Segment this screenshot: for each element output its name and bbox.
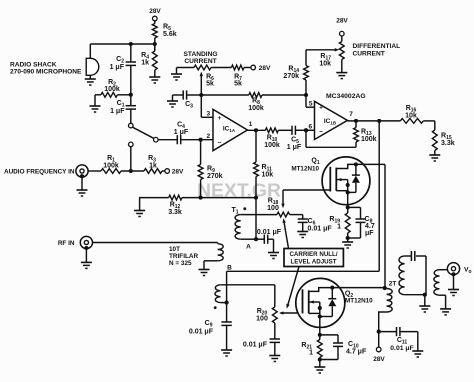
connector RF IN [58, 236, 93, 262]
svg-text:DIFFERENTIAL: DIFFERENTIAL [353, 43, 401, 50]
svg-text:5: 5 [309, 101, 313, 108]
svg-text:1 μF: 1 μF [110, 108, 125, 115]
svg-text:1: 1 [337, 224, 341, 231]
node (Q2 source) [318, 327, 322, 337]
node B label [227, 265, 232, 272]
capacitor C4 1uF [158, 122, 213, 145]
wire (IC1A output) [247, 128, 265, 132]
svg-text:LEVEL ADJUST: LEVEL ADJUST [290, 259, 336, 266]
capacitor C8 4.7uF [348, 207, 375, 238]
microphone (Radio Shack 270-090) [86, 44, 99, 79]
svg-text:2T: 2T [389, 281, 397, 288]
ground [342, 242, 353, 248]
ground [314, 367, 325, 373]
transistor Q1 MT12N10 [291, 157, 370, 207]
svg-text:28V: 28V [336, 18, 348, 25]
capacitor C1 1uF [110, 95, 136, 123]
svg-text:100: 100 [256, 316, 268, 323]
wire (pin6) [296, 128, 315, 132]
capacitor C5 1uF [287, 126, 315, 151]
svg-text:270k: 270k [283, 73, 299, 80]
svg-text:100k: 100k [248, 105, 264, 112]
node (C3/wiper/pin3) [199, 93, 203, 97]
transformer T2 output link [434, 270, 447, 309]
svg-text:10k: 10k [262, 172, 274, 179]
op-amp IC1B MC34002AG [308, 93, 365, 140]
svg-text:MT12N10: MT12N10 [291, 166, 319, 173]
capacitor (tank) [411, 251, 414, 261]
svg-text:0.01 μF: 0.01 μF [257, 229, 282, 236]
ground [336, 73, 347, 79]
resistor R7 5k [211, 65, 251, 87]
potentiometer R17 10k (differential current) [306, 36, 344, 73]
svg-text:3: 3 [206, 111, 210, 118]
resistor R12 3.3k (bias return) [139, 195, 200, 216]
potentiometer R20 100 (carrier null) [256, 285, 302, 323]
svg-text:28V: 28V [259, 65, 271, 72]
power terminal 28V (audio bias) [165, 169, 184, 176]
resistor R15 3.3k [432, 121, 454, 155]
wire (Q2 drain to 2T) [332, 287, 384, 289]
svg-text:100: 100 [267, 205, 279, 212]
label RADIO SHACK 270-090 MICROPHONE [10, 62, 82, 76]
ground [134, 211, 145, 217]
svg-text:CARRIER NULL/: CARRIER NULL/ [289, 251, 337, 258]
svg-text:10k: 10k [405, 113, 417, 120]
label 10T TRIFILAR N=325 [169, 246, 198, 267]
svg-text:1k: 1k [141, 60, 149, 67]
svg-text:3.3k: 3.3k [168, 209, 182, 216]
connector Vo output [447, 263, 471, 290]
resistor R5 5.6k [152, 24, 176, 39]
transformer T2 secondary (tank) [399, 256, 427, 306]
ground [85, 79, 96, 85]
resistor R8 100k [201, 93, 306, 112]
transformer T1 winding C [214, 285, 275, 309]
svg-text:0.01 μF: 0.01 μF [243, 342, 268, 349]
ground [81, 262, 92, 268]
svg-text:28V: 28V [149, 8, 161, 15]
potentiometer R6 5k [194, 65, 214, 95]
resistor R13 100k (feedback) [306, 121, 377, 147]
capacitor C3 [173, 90, 202, 109]
adjust arrow to R18 [283, 218, 289, 248]
svg-text:1k: 1k [149, 163, 157, 170]
adjust arrow to R20 [286, 267, 299, 309]
wire (bias line) [201, 197, 256, 199]
ground [167, 101, 178, 107]
label DIFFERENTIAL CURRENT [353, 43, 401, 58]
svg-text:0.01 μF: 0.01 μF [189, 329, 214, 336]
ground [429, 155, 440, 161]
ground [149, 77, 160, 83]
svg-text:100k: 100k [104, 86, 120, 93]
svg-text:5k: 5k [206, 81, 214, 88]
ground [77, 190, 88, 196]
wire (node A riser) [255, 198, 257, 240]
ground [171, 68, 194, 81]
svg-text:270k: 270k [207, 173, 223, 180]
wire [121, 169, 144, 173]
svg-text:TRIFILAR: TRIFILAR [169, 253, 198, 260]
power terminal 28V (drain supply) [373, 332, 385, 363]
resistor R10 100k [264, 128, 292, 149]
svg-text:B: B [227, 265, 232, 272]
ground [440, 309, 451, 315]
wire (Q1 gate from R18 wiper) [281, 190, 330, 208]
svg-text:CURRENT: CURRENT [353, 51, 385, 58]
svg-text:5k: 5k [234, 81, 242, 88]
svg-text:1 μF: 1 μF [287, 144, 302, 151]
connector AUDIO FREQUENCY IN [4, 165, 88, 190]
svg-text:4.7: 4.7 [365, 223, 375, 230]
resistor R3 1k [144, 155, 165, 173]
capacitor C11 0.01uF [379, 327, 418, 352]
wire [90, 42, 155, 46]
svg-text:3.3k: 3.3k [441, 140, 455, 147]
ground [297, 232, 308, 238]
svg-text:MT12N10: MT12N10 [345, 297, 373, 304]
power terminal 28V top [149, 8, 161, 21]
label STANDING CURRENT [184, 51, 218, 65]
svg-text:1 μF: 1 μF [110, 64, 125, 71]
svg-text:+: + [319, 105, 323, 112]
svg-text:7: 7 [349, 111, 353, 118]
svg-text:RADIO SHACK: RADIO SHACK [10, 62, 57, 69]
svg-text:−: − [218, 140, 222, 147]
svg-text:MC34002AG: MC34002AG [326, 93, 366, 100]
svg-text:4.7 μF: 4.7 μF [346, 349, 367, 356]
transformer T2 primary 2T [377, 288, 393, 334]
svg-text:AUDIO FREQUENCY IN: AUDIO FREQUENCY IN [4, 169, 75, 176]
wire (Q1 drain to 2T) [356, 164, 385, 288]
svg-text:5.6k: 5.6k [163, 31, 177, 38]
wire (RF line) [93, 242, 218, 244]
svg-text:10k: 10k [319, 61, 331, 68]
node (Q1 source) [346, 205, 350, 209]
svg-text:A: A [246, 244, 251, 251]
svg-text:0.01 μF: 0.01 μF [390, 345, 413, 352]
svg-text:+: + [218, 115, 222, 122]
wire [154, 21, 156, 24]
transistor Q2 MT12N10 [296, 278, 373, 327]
svg-text:28V: 28V [373, 356, 385, 363]
svg-text:1: 1 [309, 350, 313, 357]
ground [419, 306, 430, 312]
callout box CARRIER NULL/LEVEL ADJUST [284, 249, 343, 267]
svg-text:0.01 μF: 0.01 μF [308, 226, 333, 233]
svg-text:CURRENT: CURRENT [184, 58, 216, 65]
resistor R2 100k [95, 79, 133, 106]
ground [268, 253, 279, 259]
svg-text:1 μF: 1 μF [174, 129, 189, 136]
watermark NEXT.GR [197, 181, 281, 201]
svg-text:RF IN: RF IN [58, 240, 75, 247]
resistor R19 1 [329, 207, 350, 242]
wire (pin5) [306, 95, 315, 107]
svg-text:2: 2 [206, 133, 210, 140]
potentiometer R18 100 (carrier null) [245, 198, 303, 218]
capacitor C6 0.01uF [298, 215, 333, 233]
resistor R1 100k [88, 155, 121, 173]
wire (IC1B output) [347, 119, 400, 123]
ground [269, 356, 280, 362]
capacitor 0.01uF (R20 bottom) [243, 323, 280, 356]
svg-text:10T: 10T [169, 246, 180, 253]
svg-text:μF: μF [365, 230, 374, 237]
ground [199, 270, 210, 276]
resistor R21 1 [301, 335, 322, 367]
wire [153, 38, 157, 51]
resistor R11 10k [254, 130, 274, 199]
node 2T [383, 281, 397, 291]
resistor R9 270k [198, 140, 222, 200]
ground [448, 290, 459, 296]
ground [90, 106, 101, 112]
wire (B riser) [225, 271, 229, 304]
capacitor C7 0.01uF (node A) [256, 229, 282, 253]
resistor R16 10k [400, 105, 435, 123]
transformer T1 winding A [231, 207, 258, 251]
resistor R14 270k [283, 50, 308, 97]
power terminal 28V (differential) [336, 18, 348, 37]
capacitor C10 4.7uF [320, 335, 367, 360]
svg-text:100k: 100k [103, 163, 119, 170]
op-amp IC1A [206, 109, 252, 150]
power terminal 28V (standing current) [251, 65, 271, 72]
transformer T1 winding B (RF) [204, 243, 223, 270]
wire (IC1B output to node B) [227, 121, 380, 271]
svg-text:100k: 100k [264, 142, 280, 149]
wire (pin3) [201, 95, 213, 117]
ground [221, 350, 232, 356]
capacitor C9 0.01uF [189, 303, 232, 350]
ground [412, 351, 423, 357]
switch S1 (mic/audio select) [129, 123, 159, 171]
svg-text:−: − [319, 129, 323, 136]
svg-text:270-090 MICROPHONE: 270-090 MICROPHONE [10, 69, 82, 76]
svg-text:100k: 100k [361, 136, 377, 143]
svg-text:N = 325: N = 325 [169, 260, 192, 267]
svg-text:1: 1 [249, 121, 253, 128]
svg-text:STANDING: STANDING [184, 51, 218, 58]
capacitor C2 1uF [110, 44, 136, 95]
svg-text:28V: 28V [172, 169, 184, 176]
resistor R4 1k [141, 44, 157, 77]
